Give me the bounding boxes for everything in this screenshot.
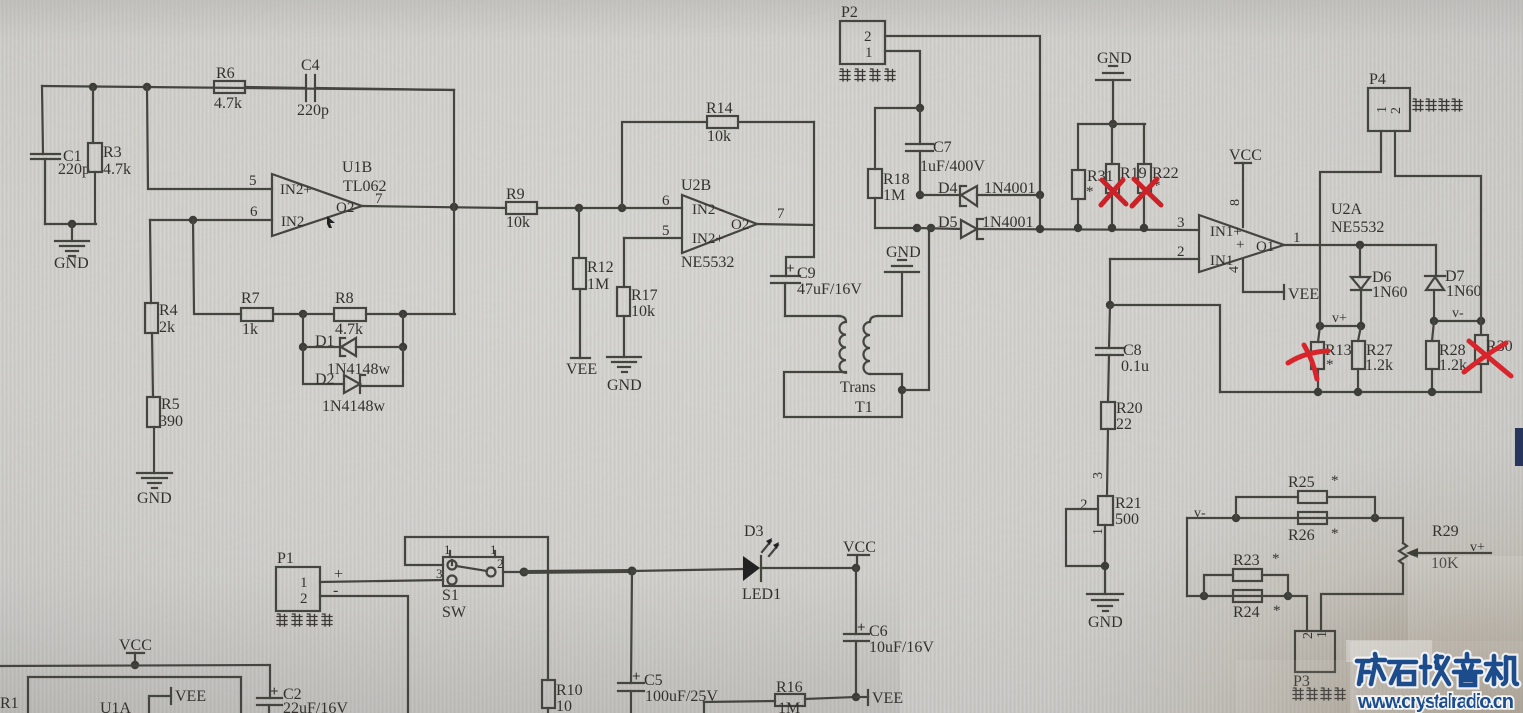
- svg-text:R4: R4: [159, 302, 178, 319]
- label P4 Chinese 表头插座: [1413, 99, 1462, 111]
- node VEE rail dot: [852, 693, 860, 701]
- svg-text:2: 2: [1389, 107, 1404, 114]
- svg-text:C9: C9: [797, 265, 816, 282]
- svg-text:GND: GND: [886, 244, 921, 261]
- watermark Chinese 矿石收音机 blue layer: [1357, 654, 1517, 685]
- svg-text:D5: D5: [938, 214, 958, 231]
- svg-text:220p: 220p: [58, 161, 90, 178]
- red X annotation over R22: [1132, 179, 1161, 206]
- svg-text:500: 500: [1115, 511, 1139, 528]
- svg-text:1N4148w: 1N4148w: [327, 361, 391, 378]
- svg-text:R20: R20: [1116, 400, 1143, 417]
- svg-text:R17: R17: [631, 287, 658, 304]
- node R8 right junction dot: [399, 310, 407, 318]
- svg-text:10uF/16V: 10uF/16V: [869, 639, 934, 656]
- wire pin6 feedback vertical: [193, 220, 241, 314]
- svg-text:P1: P1: [277, 550, 294, 567]
- wire R18 bottom to D5 row: [875, 227, 917, 229]
- wire output vertical x454: [453, 90, 455, 314]
- wire C1-R3 bottom rail: [45, 223, 96, 225]
- svg-text:6: 6: [662, 193, 670, 209]
- transformer T1 secondary winding: [864, 273, 902, 374]
- resistor R20: [1101, 402, 1115, 496]
- svg-text:GND: GND: [1088, 614, 1123, 631]
- svg-text:R25: R25: [1288, 474, 1315, 491]
- svg-text:*: *: [1331, 473, 1339, 489]
- svg-text:U1A: U1A: [100, 700, 132, 713]
- diode D7 1N60: [1425, 276, 1445, 321]
- wire T1 to D5 column: [902, 229, 929, 390]
- svg-text:R7: R7: [241, 290, 260, 307]
- resistor R17: [617, 238, 630, 357]
- svg-text:1.2k: 1.2k: [1365, 357, 1393, 374]
- svg-text:3: 3: [1091, 472, 1106, 479]
- node pin6 junction dot: [189, 216, 197, 224]
- svg-text:1k: 1k: [242, 321, 258, 338]
- svg-text:R12: R12: [587, 259, 614, 276]
- svg-text:SW: SW: [442, 604, 467, 621]
- red X annotation over R13: [1288, 345, 1328, 379]
- svg-text:6: 6: [250, 204, 258, 220]
- capacitor C1: [31, 154, 60, 224]
- op-amp U2A: [1199, 215, 1284, 272]
- svg-text:U2A: U2A: [1331, 201, 1363, 218]
- power VCC (LED rail): [848, 555, 869, 568]
- svg-text:O2: O2: [731, 217, 749, 233]
- power VEE (rail): [856, 690, 868, 705]
- svg-text:www.crystalradio.cn: www.crystalradio.cn: [1357, 691, 1514, 713]
- svg-text:NE5532: NE5532: [1331, 219, 1384, 236]
- node C8 top dot: [1106, 301, 1114, 309]
- svg-text:22: 22: [1116, 416, 1132, 433]
- red X annotation over R19: [1101, 180, 1126, 205]
- ground GND5 (top right) inverted: [1096, 66, 1130, 124]
- svg-text:C5: C5: [644, 672, 663, 689]
- wire bottom bus: [1220, 391, 1481, 393]
- svg-text:R24: R24: [1233, 604, 1260, 621]
- svg-text:Trans: Trans: [840, 379, 876, 396]
- wire P2 pin1 to C7: [885, 51, 920, 108]
- svg-text:7: 7: [777, 206, 785, 222]
- node R25 right dot: [1371, 514, 1379, 522]
- op-amp U2B: [682, 195, 757, 253]
- power VEE (R12): [571, 357, 590, 359]
- label P2 Chinese 测试插座: [840, 69, 895, 81]
- svg-text:1: 1: [300, 575, 308, 591]
- resistor R16: [775, 694, 856, 706]
- node R12 top dot: [575, 204, 583, 212]
- wire feedback to bottom bus: [1110, 305, 1220, 392]
- svg-text:10: 10: [556, 698, 572, 713]
- wire D2 loop: [303, 347, 344, 384]
- node R7/R8 junction dot: [299, 310, 307, 318]
- svg-text:R1: R1: [0, 695, 19, 712]
- wire R31/R19/R22 top rail: [1078, 123, 1145, 125]
- svg-text:1N4001: 1N4001: [982, 214, 1034, 231]
- svg-text:*: *: [1273, 603, 1281, 619]
- svg-text:+: +: [270, 684, 279, 700]
- red X annotation over R30: [1464, 341, 1511, 376]
- resistor R4: [145, 220, 158, 397]
- node D5 row dot at P2 column: [1036, 225, 1044, 233]
- svg-text:1: 1: [490, 542, 497, 557]
- wire R23/R24 row: [1187, 595, 1288, 597]
- svg-text:C6: C6: [869, 623, 888, 640]
- svg-text:D3: D3: [744, 523, 764, 540]
- svg-text:R6: R6: [216, 65, 235, 82]
- svg-text:7: 7: [375, 191, 383, 207]
- label P1 Chinese 电池接口: [277, 614, 332, 626]
- resistor R27: [1352, 326, 1365, 392]
- svg-text:2: 2: [1080, 497, 1088, 513]
- power VCC (U1A rail): [127, 653, 144, 665]
- resistor R14: [707, 116, 814, 128]
- svg-text:3: 3: [436, 566, 443, 581]
- wire top feedback rail: [42, 86, 454, 90]
- wire P4 pin2 to v-: [1395, 131, 1481, 321]
- resistor R31: [1072, 124, 1085, 228]
- wire R16 row: [703, 702, 705, 713]
- diode D6 1N60: [1351, 245, 1371, 326]
- resistor R9: [506, 202, 682, 214]
- resistor R5: [147, 397, 160, 473]
- svg-text:R29: R29: [1432, 523, 1459, 540]
- resistor R30: [1475, 321, 1488, 392]
- wire output to C9: [786, 122, 814, 276]
- svg-text:R31: R31: [1087, 168, 1114, 185]
- svg-text:+: +: [1236, 237, 1244, 253]
- svg-text:v-: v-: [1452, 306, 1464, 321]
- svg-text:*: *: [1331, 526, 1339, 542]
- resistor R10: [542, 680, 555, 713]
- wire C9 to T1 primary: [785, 315, 840, 317]
- node thick wire left dot: [520, 568, 529, 577]
- resistor R19: [1106, 124, 1119, 228]
- svg-text:4.7k: 4.7k: [335, 321, 363, 338]
- node R23 left dot: [1200, 592, 1208, 600]
- switch S1: [443, 551, 503, 586]
- svg-text:VCC: VCC: [843, 539, 876, 556]
- resistor R13: [1311, 326, 1324, 392]
- svg-text:C8: C8: [1123, 342, 1142, 359]
- svg-text:R23: R23: [1233, 552, 1260, 569]
- svg-text:1N60: 1N60: [1372, 284, 1408, 301]
- svg-text:D1: D1: [315, 333, 335, 350]
- node R14 column dot: [618, 204, 626, 212]
- wire pin2 down to C8: [1109, 259, 1111, 305]
- wire P1 pin2 down: [320, 596, 408, 713]
- svg-text:NE5532: NE5532: [681, 254, 734, 271]
- svg-text:P4: P4: [1369, 71, 1386, 88]
- wire pin5 row U2B: [624, 237, 682, 239]
- resistor R26: [1298, 512, 1327, 524]
- svg-text:GND: GND: [137, 490, 172, 507]
- ground GND3 (R17): [607, 357, 641, 372]
- svg-text:1uF/400V: 1uF/400V: [920, 158, 985, 175]
- node D1 left dot: [299, 343, 307, 351]
- wire switch top loop: [451, 560, 453, 565]
- node D4 right dot: [1036, 191, 1044, 199]
- svg-text:v+: v+: [1470, 540, 1485, 555]
- diode D4 1N4001: [920, 186, 1040, 206]
- svg-text:220p: 220p: [297, 102, 329, 119]
- svg-text:+: +: [786, 261, 795, 277]
- svg-text:+: +: [857, 620, 866, 636]
- capacitor C4: [245, 75, 454, 101]
- node bus dots: [1314, 388, 1322, 396]
- svg-text:R16: R16: [776, 679, 803, 696]
- svg-text:R21: R21: [1115, 495, 1142, 512]
- svg-text:1: 1: [865, 45, 873, 61]
- wire R24 row to P3 pin2: [1288, 596, 1307, 631]
- svg-text:0.1u: 0.1u: [1121, 358, 1149, 375]
- capacitor C5: [618, 571, 644, 713]
- node VCC rail dot left: [131, 661, 139, 669]
- svg-text:D2: D2: [315, 371, 335, 388]
- svg-text:2: 2: [1301, 632, 1316, 639]
- node thick wire right dot: [628, 567, 637, 576]
- svg-text:2: 2: [1177, 244, 1185, 260]
- op-amp U1B: [272, 174, 362, 236]
- svg-text:*: *: [1326, 357, 1334, 373]
- node VCC rail dot: [852, 564, 860, 572]
- node junction dot A1: [89, 83, 97, 91]
- power VEE (U1A inside): [149, 688, 171, 713]
- svg-text:VEE: VEE: [872, 690, 903, 707]
- wire S1 out: [503, 571, 524, 573]
- node D1 right dot: [399, 343, 407, 351]
- node v+ dots: [1316, 322, 1324, 330]
- svg-text:VEE: VEE: [1288, 286, 1319, 303]
- svg-text:+: +: [334, 566, 343, 583]
- LED D3: [743, 538, 856, 581]
- wire U1B output row: [362, 206, 506, 208]
- svg-text:8: 8: [1228, 199, 1243, 206]
- svg-text:1N60: 1N60: [1446, 283, 1482, 300]
- svg-text:2: 2: [300, 591, 308, 607]
- svg-text:GND: GND: [607, 377, 642, 394]
- wire left loop down: [1186, 518, 1188, 596]
- wire R25/R26 row: [1187, 517, 1403, 519]
- svg-text:R8: R8: [335, 290, 354, 307]
- capacitor C8: [1096, 305, 1123, 402]
- diode D2 1N4148w: [344, 375, 365, 393]
- svg-text:3: 3: [1177, 215, 1185, 231]
- node D4 row left dot: [916, 191, 924, 199]
- resistor R22: [1138, 124, 1151, 228]
- watermark light backdrop: [1350, 641, 1523, 713]
- node bottom dots R31 R19 R22: [1074, 224, 1082, 232]
- connector P4: [1368, 88, 1410, 131]
- wire U2B output: [757, 224, 814, 225]
- wire P1 pin1 to switch: [320, 580, 443, 582]
- node junction dot A2: [143, 83, 151, 91]
- svg-text:1: 1: [1315, 631, 1330, 638]
- svg-text:LED1: LED1: [742, 586, 781, 603]
- ground GND2 (R5): [137, 473, 172, 488]
- svg-text:VEE: VEE: [175, 688, 206, 705]
- svg-text:C7: C7: [933, 139, 952, 156]
- node GND5 rail dot: [1109, 120, 1117, 128]
- svg-text:1: 1: [1293, 230, 1301, 246]
- svg-text:VCC: VCC: [1229, 147, 1262, 164]
- svg-text:+: +: [632, 669, 641, 685]
- wire P2 pin2 to D4: [885, 36, 1040, 195]
- svg-text:*: *: [1272, 551, 1280, 567]
- resistor R23 with loop: [1204, 569, 1288, 596]
- diode D5 1N4001: [917, 219, 1199, 239]
- node C7 top dot: [916, 104, 924, 112]
- svg-text:O1: O1: [1256, 239, 1274, 255]
- svg-text:IN2+: IN2+: [280, 182, 312, 198]
- transformer T1 primary winding: [784, 316, 902, 417]
- svg-text:IN2: IN2: [281, 214, 304, 230]
- wire pin2 row: [1110, 258, 1199, 260]
- resistor R12: [573, 208, 586, 358]
- U2A pin8 VCC: [1235, 163, 1251, 227]
- wire v- row: [1434, 320, 1481, 322]
- svg-text:2k: 2k: [159, 319, 175, 336]
- wire U2A output row: [1284, 244, 1436, 246]
- svg-text:10k: 10k: [707, 128, 731, 145]
- node output junction dot: [450, 203, 458, 211]
- resistor R21: [1098, 496, 1113, 594]
- svg-text:S1: S1: [442, 587, 459, 604]
- svg-text:1M: 1M: [778, 700, 800, 713]
- svg-text:R26: R26: [1288, 527, 1315, 544]
- wire R21 bypass loop: [1066, 509, 1105, 566]
- svg-text:5: 5: [249, 173, 257, 189]
- svg-text:D4: D4: [938, 180, 958, 197]
- U2A pin4 VEE: [1243, 259, 1284, 299]
- diode D1 1N4148w: [303, 338, 403, 356]
- svg-text:P2: P2: [841, 4, 858, 21]
- wire pin6 row: [150, 219, 272, 221]
- svg-text:VCC: VCC: [119, 637, 152, 654]
- ground GND4 (T1 secondary top) inverted: [885, 260, 919, 272]
- capacitor C6: [844, 568, 869, 697]
- node T1 output dot: [898, 386, 906, 394]
- connector P3: [1295, 631, 1335, 672]
- resistor R3: [88, 87, 102, 224]
- svg-text:10k: 10k: [506, 214, 530, 231]
- svg-text:R3: R3: [103, 144, 122, 161]
- svg-text:R18: R18: [883, 171, 910, 188]
- wire left vertical to C1: [42, 86, 43, 154]
- wire VCC rail left: [0, 665, 270, 698]
- svg-text:1M: 1M: [883, 187, 905, 204]
- node R25 left dot: [1232, 514, 1240, 522]
- svg-text:v+: v+: [1332, 311, 1347, 326]
- wire D4 to D5 row: [1039, 195, 1041, 229]
- svg-text:GND: GND: [54, 255, 89, 272]
- svg-text:1: 1: [444, 542, 451, 557]
- resistor R6: [214, 81, 245, 93]
- wire thick segment: [524, 571, 632, 572]
- svg-text:2: 2: [497, 556, 504, 571]
- svg-text:47uF/16V: 47uF/16V: [797, 281, 862, 298]
- dark blue patch right edge: [1515, 428, 1523, 466]
- resistor R25 with loop: [1236, 491, 1375, 518]
- wire to LED: [632, 569, 743, 571]
- capacitor C7: [906, 108, 933, 195]
- svg-text:4.7k: 4.7k: [103, 161, 131, 178]
- svg-text:2: 2: [864, 29, 872, 45]
- capacitor C9: [771, 276, 800, 316]
- node D6 top dot: [1356, 241, 1364, 249]
- watermark Chinese 矿石收音机 white outline layer: [1357, 654, 1517, 685]
- svg-text:GND: GND: [1097, 50, 1132, 67]
- resistor R18: [868, 169, 882, 228]
- potentiometer R29: [1321, 518, 1491, 631]
- svg-text:1N4148w: 1N4148w: [322, 398, 386, 415]
- svg-text:R9: R9: [506, 186, 525, 203]
- svg-text:T1: T1: [855, 399, 873, 416]
- svg-text:U2B: U2B: [681, 177, 711, 194]
- node v- dots: [1430, 317, 1438, 325]
- capacitor C2: [257, 698, 282, 713]
- svg-text:1: 1: [1375, 106, 1390, 113]
- svg-text:U1B: U1B: [342, 159, 372, 176]
- wire v+ row: [1320, 325, 1361, 327]
- connector P2: [840, 21, 885, 64]
- svg-text:5: 5: [662, 223, 670, 239]
- wire P4 pin1 to v+: [1320, 131, 1381, 326]
- wire down to pin5: [147, 87, 272, 189]
- svg-text:VEE: VEE: [566, 361, 597, 378]
- resistor R28: [1426, 321, 1439, 392]
- ground GND1 (C1/R3): [55, 224, 89, 256]
- svg-text:1M: 1M: [587, 276, 609, 293]
- node D5 row dots: [913, 224, 921, 232]
- label P3 Chinese 表头匹配: [1293, 688, 1345, 700]
- svg-text:*: *: [1086, 184, 1094, 200]
- svg-text:4.7k: 4.7k: [214, 95, 242, 112]
- wire to R18: [875, 108, 920, 169]
- svg-text:v-: v-: [1194, 506, 1206, 521]
- wire D1 branch verticals: [302, 314, 304, 347]
- wire R14 feedback loop: [622, 122, 707, 208]
- resistor R7: [241, 308, 303, 321]
- wire output corner to D7: [1435, 245, 1437, 276]
- svg-text:R14: R14: [706, 100, 733, 117]
- svg-text:22uF/16V: 22uF/16V: [283, 700, 348, 713]
- svg-text:1N4001: 1N4001: [984, 180, 1036, 197]
- svg-text:390: 390: [159, 413, 183, 430]
- svg-text:R10: R10: [556, 682, 583, 699]
- mouse cursor artifact: [327, 216, 335, 228]
- node junction dot on GND rail: [68, 220, 76, 228]
- svg-text:O2: O2: [336, 200, 354, 216]
- ground GND6 (R21): [1087, 594, 1123, 611]
- op-amp U1A box outline: [28, 677, 241, 713]
- node R23 right dot: [1284, 592, 1292, 600]
- svg-text:IN2 -: IN2 -: [692, 202, 724, 218]
- svg-text:IN2+: IN2+: [692, 231, 724, 247]
- svg-text:4: 4: [1227, 266, 1242, 273]
- svg-text:1: 1: [1091, 528, 1106, 535]
- resistor R24: [1233, 590, 1262, 602]
- connector P1: [276, 567, 320, 611]
- svg-text:C4: C4: [301, 57, 320, 74]
- node R21 bottom dot: [1101, 562, 1109, 570]
- svg-text:R5: R5: [161, 396, 180, 413]
- svg-text:10k: 10k: [631, 303, 655, 320]
- resistor R8: [303, 308, 455, 321]
